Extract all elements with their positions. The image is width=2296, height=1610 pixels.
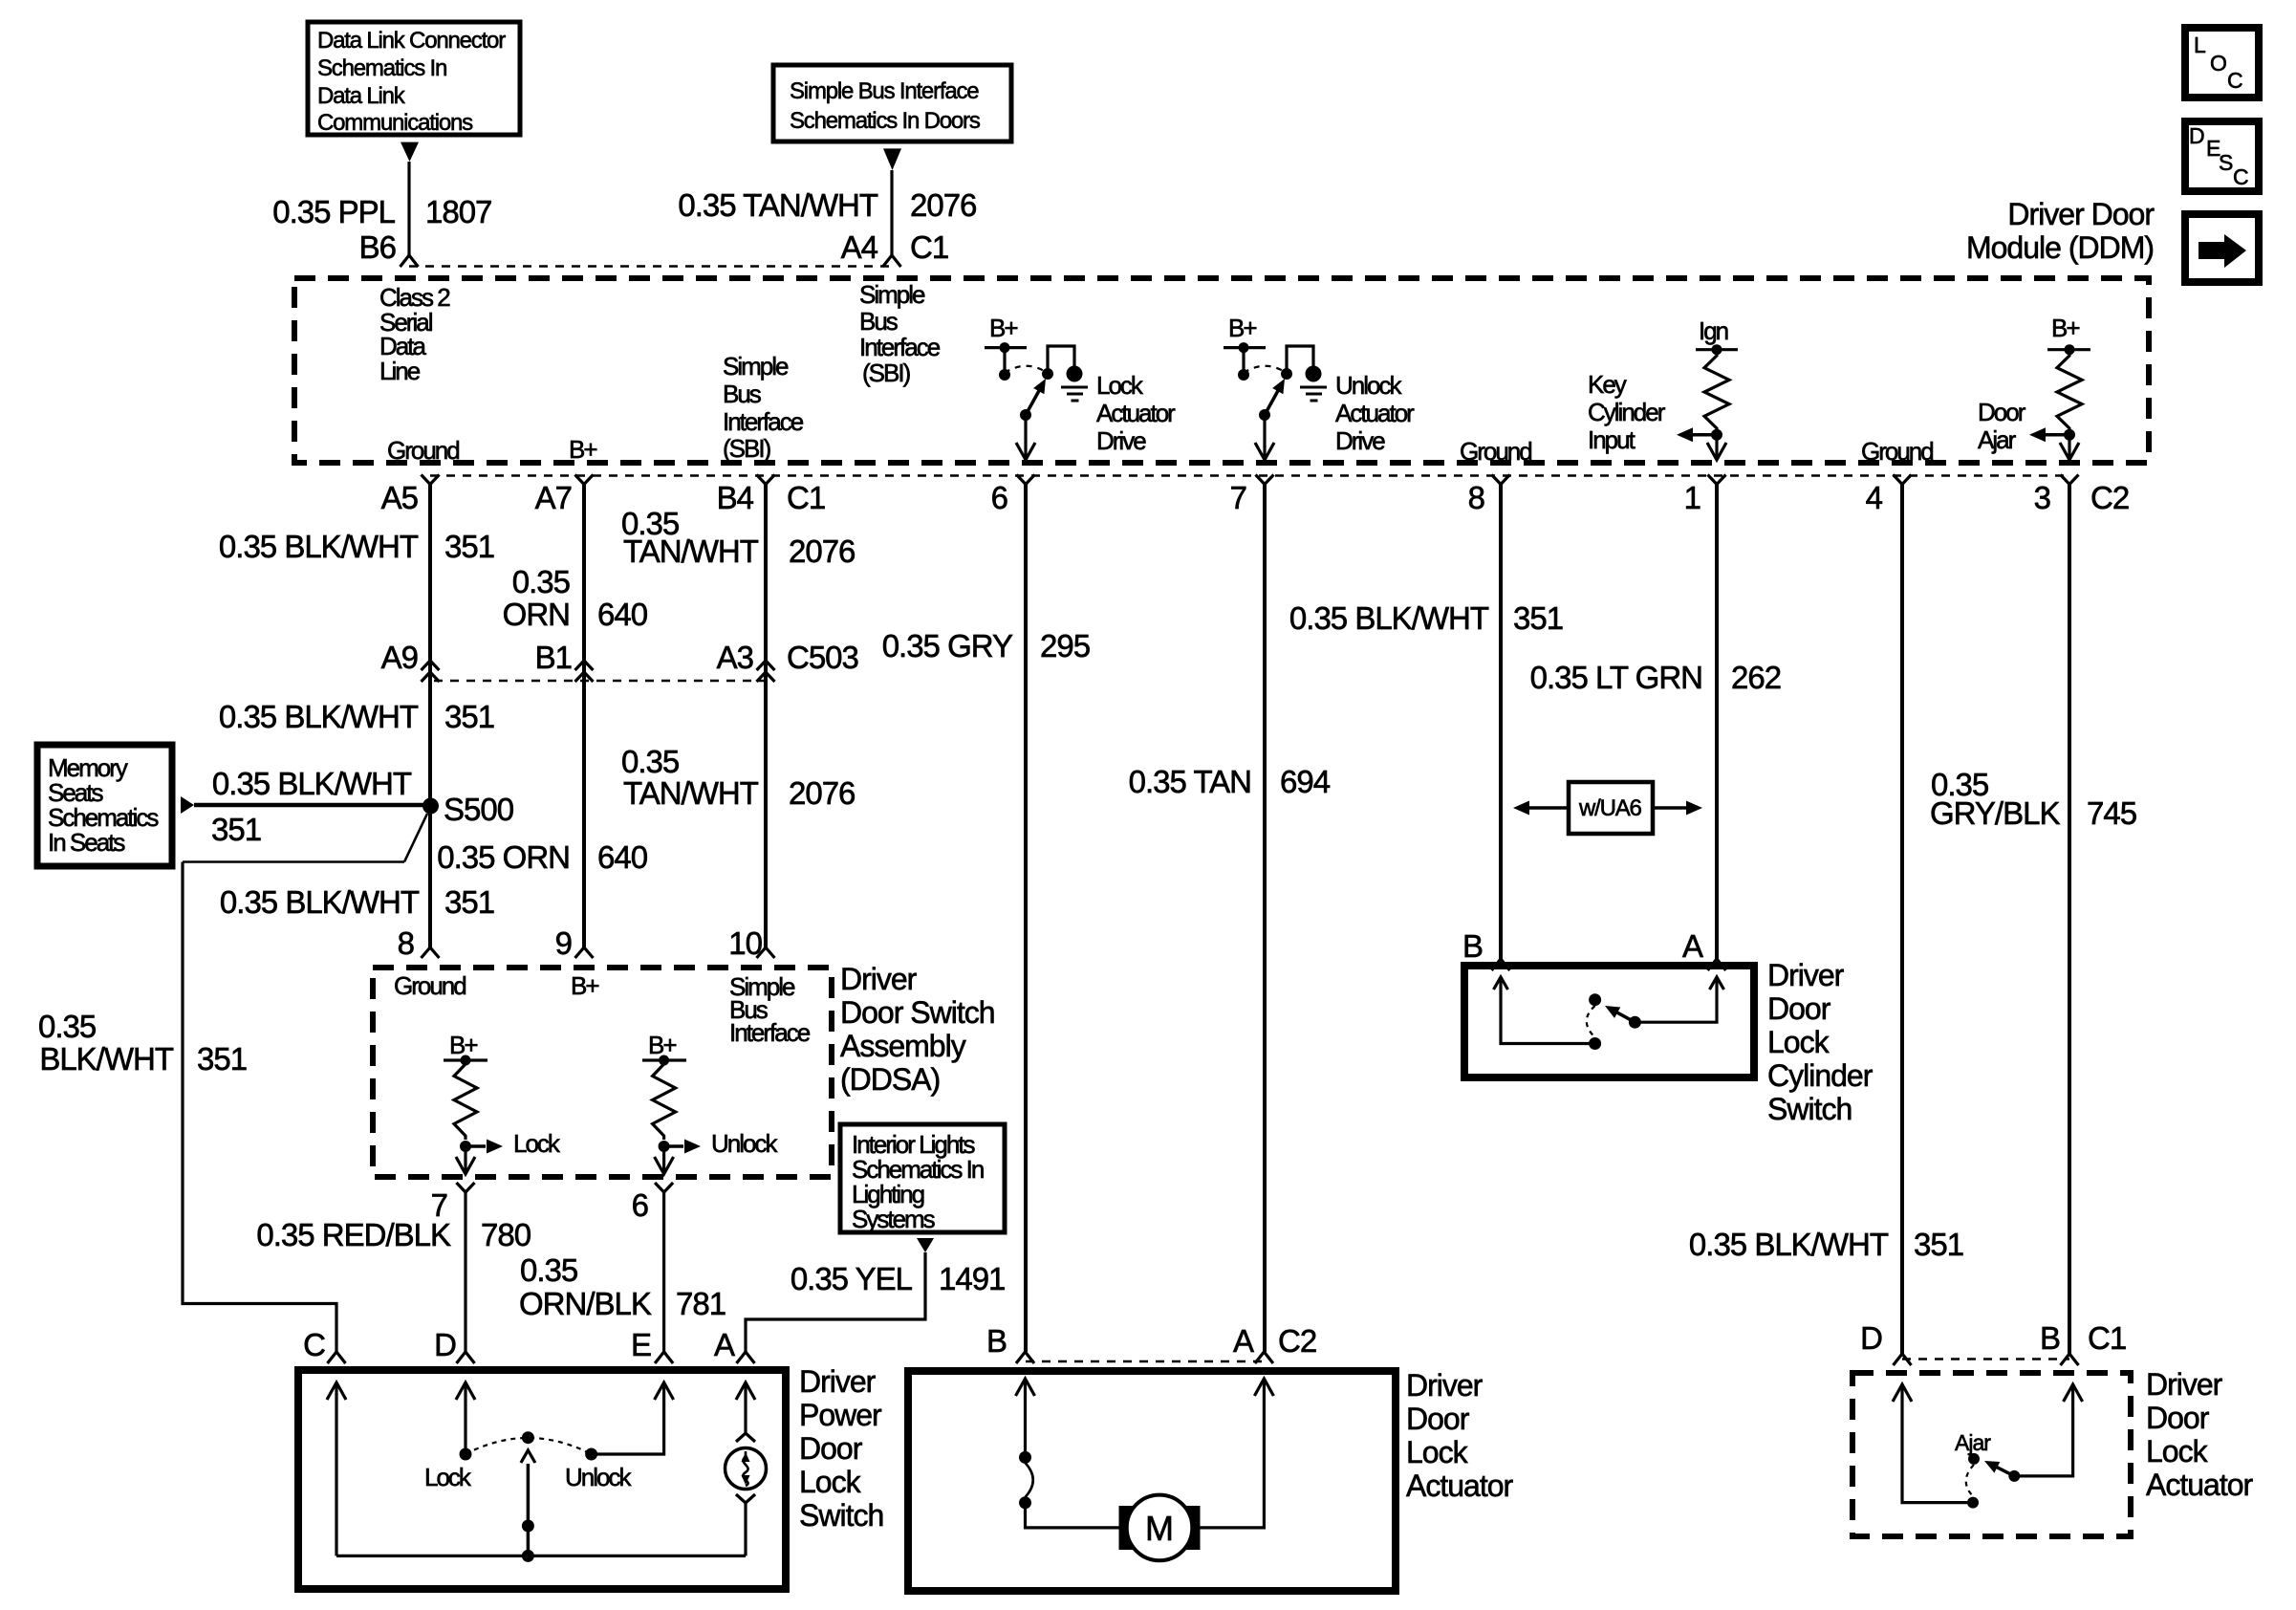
svg-text:351: 351	[444, 884, 494, 920]
off-page reference box: Memory Seats Schematics In Seats	[37, 745, 172, 866]
switch unlock contact dot	[585, 1448, 597, 1461]
svg-text:351: 351	[444, 529, 494, 564]
svg-text:A7: A7	[535, 480, 572, 515]
svg-text:7: 7	[1230, 480, 1246, 515]
svg-text:0.35 GRY: 0.35 GRY	[882, 628, 1013, 664]
unlock actuator drive switch blade	[1265, 389, 1279, 416]
label Lock Actuator Drive	[1096, 371, 1176, 455]
svg-text:8: 8	[398, 925, 414, 961]
door ajar left arrow	[2045, 433, 2069, 437]
lamp filament	[743, 1451, 747, 1486]
actuator wire to motor	[1026, 1503, 1119, 1528]
svg-text:B+: B+	[648, 1031, 676, 1059]
unlock actuator drive switch dashed arc	[1244, 366, 1285, 373]
pin 7 chevron at DDM bottom	[1256, 475, 1274, 485]
switch pivot dot	[522, 1431, 534, 1444]
lock actuator drive wire to pin 6	[1024, 415, 1027, 459]
switch bottom bus wire	[336, 1555, 746, 1557]
pin A chevron (power lock switch)	[737, 1352, 755, 1363]
svg-text:B+: B+	[989, 314, 1017, 342]
svg-text:Interface: Interface	[723, 407, 804, 436]
unlock actuator drive B+ terminal bar	[1224, 346, 1266, 349]
svg-text:Driver: Driver	[799, 1364, 877, 1399]
svg-text:ORN: ORN	[503, 597, 570, 632]
svg-text:A9: A9	[381, 640, 418, 675]
svg-text:C: C	[303, 1327, 325, 1362]
svg-text:D: D	[2189, 123, 2205, 148]
label Door Ajar	[1978, 398, 2026, 454]
svg-text:Ground: Ground	[394, 971, 466, 1000]
svg-text:D: D	[1860, 1320, 1882, 1356]
svg-text:2076: 2076	[910, 187, 976, 223]
pin 3 chevron at DDM bottom	[2061, 475, 2079, 485]
svg-text:Lock: Lock	[799, 1465, 862, 1499]
svg-text:Ground: Ground	[387, 436, 459, 465]
svg-text:C503: C503	[787, 640, 858, 675]
actuator B branch wire	[1016, 1379, 1035, 1396]
motor M circle	[1127, 1495, 1193, 1561]
unlock actuator drive ground hatches	[1300, 386, 1327, 389]
svg-text:4: 4	[1866, 480, 1883, 515]
svg-text:Lock: Lock	[513, 1129, 561, 1158]
lock actuator drive ground hatches	[1061, 386, 1088, 389]
pin 4 chevron at DDM bottom	[1894, 475, 1912, 485]
cylinder switch blade	[1615, 1012, 1635, 1022]
svg-text:262: 262	[1731, 660, 1781, 695]
svg-text:Unlock: Unlock	[711, 1129, 778, 1158]
actuator wire motor to A	[1201, 1379, 1265, 1528]
svg-text:B+: B+	[2051, 314, 2079, 342]
cylinder switch dashed arc	[1587, 1006, 1595, 1037]
lock actuator drive switch contact dot	[1042, 368, 1053, 380]
cylinder switch A branch	[1635, 977, 1717, 1022]
svg-text:10: 10	[728, 925, 762, 961]
lamp top chevron	[736, 1433, 755, 1442]
arrow legend box	[2185, 214, 2259, 282]
key cylinder input junction dot	[1711, 429, 1722, 441]
wire 351 ground A5 to DDSA pin 8	[428, 485, 432, 948]
svg-text:M: M	[1145, 1509, 1174, 1548]
door ajar wire to pin 3	[2068, 435, 2070, 459]
DDSA unlock wire to pin 6	[662, 1146, 665, 1173]
Driver Door Module (DDM) dashed box	[294, 278, 2149, 463]
svg-text:0.35 BLK/WHT: 0.35 BLK/WHT	[1689, 1227, 1889, 1262]
module label Driver Door Lock Actuator	[1406, 1368, 1514, 1503]
svg-text:780: 780	[481, 1217, 531, 1252]
svg-text:Data Link: Data Link	[317, 83, 406, 109]
svg-text:B: B	[1462, 928, 1483, 964]
pin 6 chevron at DDM bottom	[1017, 475, 1035, 485]
inline connector C503 dashed line	[434, 680, 769, 682]
svg-text:0.35 BLK/WHT: 0.35 BLK/WHT	[1289, 600, 1489, 636]
svg-text:C1: C1	[910, 229, 948, 265]
DDSA lock wire to pin 7	[464, 1146, 466, 1173]
svg-text:Ajar: Ajar	[1955, 1430, 1991, 1455]
svg-text:Driver: Driver	[2146, 1367, 2223, 1402]
svg-text:0.35 PPL: 0.35 PPL	[272, 194, 395, 229]
svg-text:781: 781	[676, 1286, 726, 1321]
svg-text:A: A	[1233, 1323, 1254, 1359]
svg-text:351: 351	[1513, 600, 1563, 636]
svg-text:295: 295	[1040, 628, 1090, 664]
svg-text:Door: Door	[1978, 398, 2026, 426]
svg-text:Unlock: Unlock	[565, 1463, 632, 1491]
svg-text:Communications: Communications	[317, 110, 473, 136]
svg-text:w/UA6: w/UA6	[1578, 795, 1642, 821]
svg-text:Lock: Lock	[1767, 1025, 1830, 1059]
S500 branch diagonal wire	[404, 814, 427, 862]
svg-text:0.35 YEL: 0.35 YEL	[791, 1261, 913, 1296]
svg-text:Ign: Ign	[1699, 316, 1728, 345]
svg-text:Switch: Switch	[1767, 1092, 1852, 1126]
off-page arrow (down) under Interior Lights box	[917, 1238, 934, 1252]
key cylinder input wire to pin 1	[1715, 435, 1718, 459]
pin E chevron (power lock switch)	[655, 1352, 673, 1363]
svg-text:S: S	[2219, 150, 2233, 175]
svg-text:Key: Key	[1588, 370, 1627, 399]
svg-text:Driver: Driver	[1406, 1368, 1484, 1403]
off-page reference box: Simple Bus Interface Schematics In Doors	[773, 65, 1011, 141]
svg-text:0.35: 0.35	[520, 1252, 577, 1288]
module label Driver Door Switch Assembly (DDSA)	[840, 962, 995, 1097]
off-page reference box: Interior Lights Schematics In Lighting Systems	[840, 1124, 1005, 1233]
door ajar resistor	[2057, 352, 2082, 432]
svg-text:TAN/WHT: TAN/WHT	[623, 533, 759, 569]
door ajar junction dot	[2064, 429, 2075, 441]
DDSA lock junction dot	[460, 1141, 471, 1152]
svg-text:8: 8	[1468, 480, 1484, 515]
svg-text:A5: A5	[381, 480, 418, 515]
svg-text:In Seats: In Seats	[48, 828, 125, 857]
svg-text:Interface: Interface	[859, 333, 941, 361]
svg-text:Simple: Simple	[859, 280, 925, 309]
svg-text:Actuator: Actuator	[1335, 399, 1415, 427]
svg-text:0.35 BLK/WHT: 0.35 BLK/WHT	[212, 766, 412, 801]
svg-text:0.35 BLK/WHT: 0.35 BLK/WHT	[220, 884, 420, 920]
wire 295 GRY pin6 to actuator B	[1024, 485, 1028, 1353]
wire 780 RED/BLK pin7 to switch D	[464, 1192, 466, 1352]
switch lock/unlock dashed arc	[466, 1438, 592, 1454]
svg-text:C1: C1	[2088, 1320, 2126, 1356]
svg-text:B4: B4	[717, 480, 754, 515]
svg-text:351: 351	[444, 699, 494, 734]
svg-text:BLK/WHT: BLK/WHT	[39, 1041, 174, 1077]
svg-text:694: 694	[1280, 764, 1331, 799]
svg-text:Simple Bus Interface: Simple Bus Interface	[790, 78, 979, 104]
switch A branch lower wire	[744, 1503, 747, 1556]
svg-text:Actuator: Actuator	[1096, 399, 1176, 427]
svg-text:S500: S500	[444, 792, 514, 827]
right actuator dashed arc	[1966, 1465, 1974, 1496]
pin A4 chevron at DDM top	[883, 255, 901, 267]
S500 branch horizontal wire	[183, 860, 404, 863]
pin D chevron (power lock switch)	[457, 1352, 475, 1363]
inline connector double chevron at x=450	[422, 661, 440, 670]
svg-text:B+: B+	[1228, 314, 1256, 342]
DDSA unlock right arrow	[664, 1144, 683, 1148]
switch C branch wire	[327, 1382, 346, 1400]
svg-text:Driver Door: Driver Door	[2007, 197, 2155, 231]
svg-text:B1: B1	[535, 640, 572, 675]
svg-text:Schematics In: Schematics In	[317, 55, 446, 81]
module label Driver Door Lock Cylinder Switch	[1767, 958, 1874, 1126]
svg-text:(SBI): (SBI)	[723, 434, 771, 463]
svg-text:351: 351	[197, 1041, 247, 1077]
wire 694 TAN pin7 to actuator A	[1263, 485, 1267, 1353]
switch blade with arrow	[527, 1464, 531, 1556]
pin 1 chevron at DDM bottom	[1708, 475, 1726, 485]
svg-text:640: 640	[597, 597, 648, 632]
DDSA lock B+ terminal bar	[444, 1058, 487, 1061]
svg-text:6: 6	[632, 1187, 648, 1223]
DDSA pin 7 chevron	[457, 1183, 475, 1192]
DESC legend box	[2185, 121, 2259, 191]
wire 745 GRY/BLK pin3 to actuator B	[2068, 485, 2071, 1355]
svg-text:Actuator: Actuator	[2146, 1468, 2254, 1502]
wire 351 long left vertical	[183, 862, 336, 1353]
connector thin dashed line at DDM bottom	[430, 474, 2069, 476]
inline connector double chevron at x=611	[575, 661, 594, 670]
pin C chevron (power lock switch)	[328, 1352, 346, 1363]
pin B4 chevron at DDM bottom	[757, 475, 775, 485]
svg-text:ORN/BLK: ORN/BLK	[519, 1286, 652, 1321]
pin A7 chevron at DDM bottom	[575, 475, 594, 485]
svg-text:Unlock: Unlock	[1335, 371, 1402, 400]
DDSA pin 9 chevron	[575, 947, 594, 958]
svg-text:Systems: Systems	[852, 1205, 936, 1233]
svg-text:0.35 BLK/WHT: 0.35 BLK/WHT	[219, 529, 419, 564]
pin A chevron (cylinder switch)	[1708, 959, 1726, 970]
Driver Door Lock Actuator box	[908, 1371, 1396, 1591]
pin 8 chevron at DDM bottom	[1492, 475, 1510, 485]
svg-text:Door: Door	[2146, 1401, 2210, 1435]
module label right Driver Door Lock Actuator	[2146, 1367, 2254, 1502]
key cylinder input resistor	[1704, 352, 1729, 432]
svg-text:Lock: Lock	[424, 1463, 472, 1491]
svg-text:Simple: Simple	[723, 352, 789, 381]
svg-text:Lock: Lock	[1406, 1435, 1469, 1469]
key cylinder input left arrow	[1692, 433, 1717, 437]
svg-text:Power: Power	[799, 1398, 882, 1432]
wire 351 BLK/WHT pin8 to cylinder switch B	[1499, 485, 1503, 962]
lock actuator drive B+ terminal bar	[985, 346, 1027, 349]
lock actuator drive ground hook wire	[1048, 346, 1074, 374]
svg-text:1807: 1807	[425, 194, 491, 229]
right actuator ajar dot	[1968, 1453, 1980, 1465]
lock actuator drive switch blade	[1026, 389, 1040, 416]
DDM internal label Simple Bus Interface (SBI) left	[723, 352, 804, 463]
off-page reference box: Data Link Connector Schematics In Data Link Communications	[308, 22, 520, 136]
svg-text:A4: A4	[841, 229, 878, 265]
svg-text:Drive: Drive	[1096, 426, 1146, 455]
svg-text:Cylinder: Cylinder	[1588, 398, 1666, 426]
cylinder switch upper dot	[1589, 993, 1601, 1006]
svg-text:Assembly: Assembly	[840, 1029, 966, 1063]
svg-text:2076: 2076	[789, 533, 855, 569]
svg-text:Door: Door	[1767, 991, 1831, 1026]
splice S500 dot	[422, 798, 439, 815]
svg-text:(DDSA): (DDSA)	[840, 1062, 940, 1097]
svg-text:Switch: Switch	[799, 1498, 883, 1533]
svg-text:Schematics In Doors: Schematics In Doors	[790, 108, 981, 134]
Driver Door Switch Assembly (DDSA) dashed box	[373, 968, 832, 1177]
svg-text:B: B	[986, 1323, 1007, 1359]
DDSA unlock junction dot	[659, 1141, 670, 1152]
DDSA lock resistor	[454, 1060, 477, 1140]
svg-text:B: B	[2040, 1320, 2060, 1356]
unlock actuator drive ground hook wire	[1287, 346, 1313, 374]
wire 351 BLK/WHT pin4 to actuator D	[1900, 485, 1904, 1355]
svg-text:0.35 ORN: 0.35 ORN	[437, 839, 570, 875]
unlock actuator drive wire to pin 7	[1263, 415, 1266, 459]
DDSA pin 10 chevron	[757, 947, 775, 958]
switch D branch wire	[456, 1382, 475, 1400]
svg-text:Actuator: Actuator	[1406, 1469, 1514, 1503]
svg-text:B6: B6	[359, 229, 396, 265]
switch A branch upper wire	[736, 1382, 755, 1400]
svg-text:Input: Input	[1588, 425, 1636, 454]
svg-text:640: 640	[597, 839, 648, 875]
svg-text:B+: B+	[571, 971, 598, 1000]
wire 351 from Memory Seats to splice S500	[194, 803, 430, 808]
svg-text:Lock: Lock	[2146, 1434, 2209, 1469]
svg-text:351: 351	[211, 812, 261, 847]
svg-text:Data Link Connector: Data Link Connector	[317, 28, 506, 54]
wire 2076 from SBI box to DDM pin A4	[890, 170, 893, 255]
right actuator B branch	[2014, 1384, 2072, 1476]
module label Driver Door Module (DDM)	[1966, 197, 2155, 265]
svg-text:0.35 TAN/WHT: 0.35 TAN/WHT	[678, 187, 877, 223]
w/UA6 option box with arrows	[1513, 782, 1702, 834]
pin D chevron (right actuator)	[1894, 1354, 1912, 1365]
right actuator blade	[1995, 1466, 2015, 1476]
svg-text:1491: 1491	[939, 1261, 1005, 1296]
off-page arrow (down) under Simple Bus Interface box	[883, 148, 901, 170]
unlock actuator drive switch contact dot	[1281, 368, 1292, 380]
svg-text:0.35: 0.35	[621, 744, 679, 779]
actuator reversing contact arc	[1026, 1463, 1033, 1497]
label Unlock Actuator Drive	[1335, 371, 1415, 455]
wire 2076 SBI B4 to DDSA pin 10	[764, 485, 768, 948]
switch E branch wire	[592, 1382, 664, 1454]
pin B chevron (cylinder switch)	[1492, 959, 1510, 970]
svg-text:Module (DDM): Module (DDM)	[1966, 230, 2154, 265]
connector C1 thin dashed line (right actuator)	[1902, 1358, 2069, 1360]
lock actuator drive switch dashed arc	[1005, 366, 1046, 373]
pin B chevron (lock actuator)	[1016, 1352, 1034, 1363]
wire 640 B+ A7 to DDSA pin 9	[582, 485, 586, 948]
motor M terminal blocks	[1119, 1506, 1201, 1550]
lamp bottom chevron	[736, 1494, 755, 1503]
svg-text:Drive: Drive	[1335, 426, 1385, 455]
svg-text:Lock: Lock	[1096, 371, 1144, 400]
inline connector double chevron at x=801	[757, 661, 775, 670]
lock actuator drive ground ball	[1067, 366, 1083, 382]
svg-text:0.35: 0.35	[38, 1009, 96, 1044]
svg-text:(SBI): (SBI)	[862, 359, 911, 387]
svg-text:745: 745	[2087, 795, 2136, 831]
svg-text:Driver: Driver	[840, 962, 918, 996]
svg-text:351: 351	[1914, 1227, 1963, 1262]
cylinder switch B branch	[1494, 977, 1508, 990]
LOC legend box	[2185, 28, 2259, 98]
svg-text:Ground: Ground	[1460, 437, 1531, 466]
svg-text:Door: Door	[1406, 1402, 1470, 1436]
right actuator lower dot	[1967, 1497, 1979, 1509]
unlock actuator drive ground ball	[1306, 366, 1322, 382]
svg-text:C1: C1	[787, 480, 825, 515]
DDSA pin 8 chevron	[422, 947, 440, 958]
svg-text:C2: C2	[2090, 480, 2129, 515]
svg-text:A: A	[714, 1327, 735, 1362]
svg-text:Cylinder: Cylinder	[1767, 1058, 1874, 1093]
off-page arrow (down) under Data Link box	[401, 142, 419, 162]
DDSA internal label Simple Bus Interface	[729, 972, 811, 1047]
svg-text:C2: C2	[1278, 1323, 1316, 1359]
door ajar B+ terminal bar	[2047, 348, 2090, 351]
DDSA unlock resistor	[653, 1060, 676, 1140]
Ign terminal bar	[1696, 348, 1738, 351]
DDSA pin 6 chevron	[655, 1183, 673, 1192]
Driver Door Lock Cylinder Switch box	[1464, 966, 1754, 1077]
connector C2 thin dashed line (actuator)	[1026, 1360, 1264, 1362]
wire 1491 YEL from Interior Lights to switch pin A	[746, 1252, 925, 1352]
svg-text:Line: Line	[379, 357, 421, 385]
illumination lamp circle	[726, 1448, 767, 1490]
svg-text:TAN/WHT: TAN/WHT	[623, 775, 759, 811]
svg-text:1: 1	[1684, 480, 1700, 515]
wire 781 ORN/BLK pin6 to switch E	[662, 1192, 665, 1352]
svg-text:Bus: Bus	[859, 307, 899, 336]
svg-text:0.35: 0.35	[512, 564, 570, 599]
DDM internal label Class 2 Serial Data Line	[379, 283, 450, 385]
svg-text:Ajar: Ajar	[1978, 425, 2017, 454]
svg-text:Driver: Driver	[1767, 958, 1845, 992]
cylinder switch lower dot	[1589, 1037, 1601, 1050]
svg-text:E: E	[631, 1327, 651, 1362]
svg-text:B+: B+	[449, 1031, 477, 1059]
wire 1807 from Data Link box to DDM pin B6	[407, 162, 410, 255]
svg-text:GRY/BLK: GRY/BLK	[1930, 795, 2060, 831]
svg-text:L: L	[2194, 33, 2206, 57]
Driver Power Door Lock Switch box	[298, 1370, 786, 1589]
connector C1 thin dashed line at DDM top	[409, 265, 892, 267]
svg-text:A3: A3	[717, 640, 753, 675]
pin B chevron (right actuator)	[2061, 1354, 2079, 1365]
svg-text:0.35 TAN: 0.35 TAN	[1129, 764, 1251, 799]
label Key Cylinder Input	[1588, 370, 1666, 454]
svg-text:2076: 2076	[789, 775, 855, 811]
svg-text:Door: Door	[799, 1431, 863, 1466]
svg-text:3: 3	[2034, 480, 2050, 515]
svg-text:0.35 LT GRN: 0.35 LT GRN	[1530, 660, 1702, 695]
DDSA lock right arrow	[466, 1144, 486, 1148]
svg-text:O: O	[2210, 51, 2227, 76]
svg-text:C: C	[2233, 164, 2249, 189]
svg-text:Interface: Interface	[729, 1018, 811, 1047]
svg-text:C: C	[2227, 68, 2243, 93]
module label Driver Power Door Lock Switch	[799, 1364, 883, 1533]
svg-text:6: 6	[991, 480, 1007, 515]
svg-text:Bus: Bus	[723, 380, 762, 408]
DDM internal label Simple Bus Interface (SBI) right	[859, 280, 941, 387]
DDSA unlock B+ terminal bar	[642, 1058, 686, 1061]
right Driver Door Lock Actuator dashed box	[1852, 1373, 2131, 1536]
wire 262 LT GRN pin1 to cylinder switch A	[1715, 485, 1719, 962]
off-page arrow (right) from Memory Seats box	[181, 796, 194, 814]
svg-text:D: D	[434, 1327, 456, 1362]
pin A5 chevron at DDM bottom	[422, 475, 440, 485]
